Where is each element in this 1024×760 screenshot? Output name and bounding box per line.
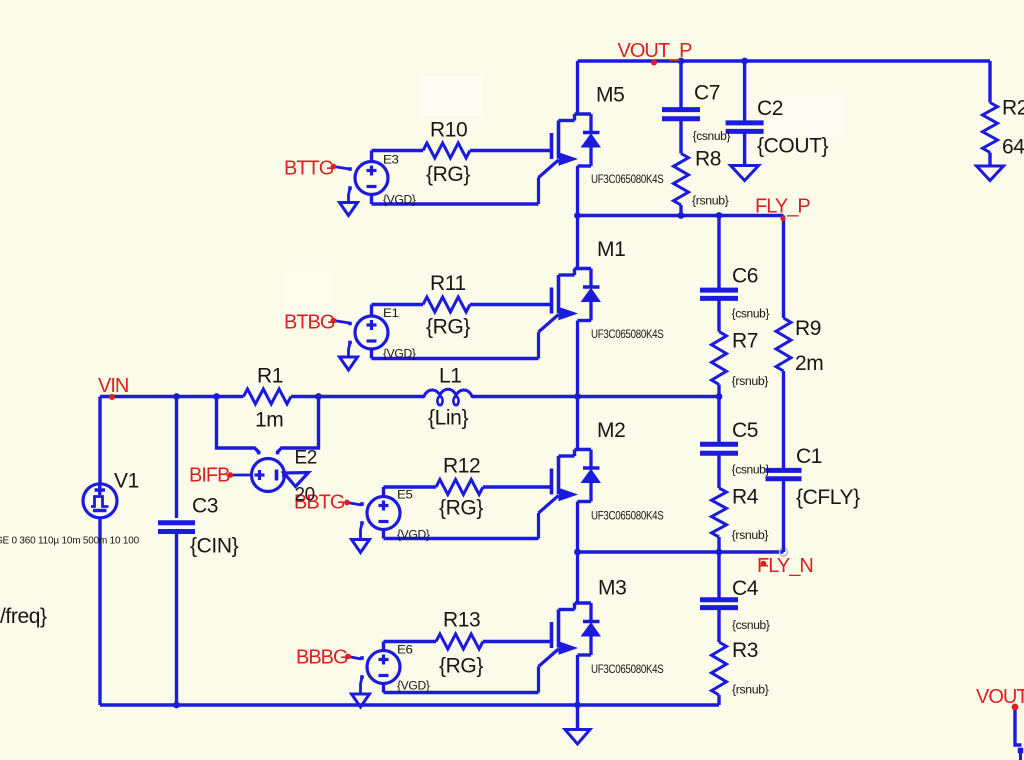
svg-text:C1: C1 — [796, 445, 822, 468]
svg-text:{CFLY}: {CFLY} — [796, 486, 860, 509]
svg-text:{rsnub}: {rsnub} — [732, 685, 769, 697]
svg-text:R8: R8 — [695, 148, 721, 171]
svg-text:R13: R13 — [443, 609, 480, 632]
svg-text:R12: R12 — [443, 455, 480, 478]
svg-text:C3: C3 — [192, 495, 218, 518]
svg-text:{COUT}: {COUT} — [757, 135, 829, 158]
svg-text:E3: E3 — [383, 154, 399, 166]
svg-text:{csnub}: {csnub} — [732, 620, 770, 632]
svg-text:{RG}: {RG} — [439, 655, 483, 678]
svg-text:{csnub}: {csnub} — [732, 309, 770, 321]
svg-text:VIN: VIN — [98, 375, 128, 397]
svg-text:UF3C065080K4S: UF3C065080K4S — [591, 174, 664, 186]
svg-text:BBBG: BBBG — [296, 647, 348, 669]
svg-text:UF3C065080K4S: UF3C065080K4S — [591, 664, 664, 676]
svg-text:R4: R4 — [732, 486, 759, 509]
svg-text:2m: 2m — [795, 352, 823, 375]
svg-text:C7: C7 — [694, 82, 720, 105]
svg-text:V1: V1 — [114, 470, 139, 493]
svg-text:E5: E5 — [397, 490, 413, 502]
svg-text:SE 0 360 110µ 10m 500m 10 100: SE 0 360 110µ 10m 500m 10 100 — [0, 535, 139, 547]
svg-text:20: 20 — [295, 485, 315, 506]
svg-text:C6: C6 — [732, 265, 758, 288]
svg-text:R3: R3 — [732, 639, 758, 662]
svg-text:UF3C065080K4S: UF3C065080K4S — [591, 510, 664, 522]
svg-text:C5: C5 — [732, 419, 758, 442]
svg-text:{csnub}: {csnub} — [732, 465, 770, 477]
svg-text:R1: R1 — [257, 365, 283, 388]
svg-text:VOUT_P: VOUT_P — [618, 40, 693, 62]
svg-text:E6: E6 — [397, 645, 413, 657]
svg-text:{Lin}: {Lin} — [428, 407, 468, 430]
svg-text:BTTG: BTTG — [284, 158, 334, 180]
svg-text:E2: E2 — [295, 448, 317, 469]
svg-text:E1: E1 — [383, 308, 399, 320]
svg-text:BTBG: BTBG — [284, 312, 335, 334]
svg-text:1m: 1m — [255, 409, 283, 432]
svg-text:C4: C4 — [732, 577, 759, 600]
svg-text:{rsnub}: {rsnub} — [692, 196, 729, 208]
svg-text:{VGD}: {VGD} — [383, 349, 416, 361]
svg-text:{CIN}: {CIN} — [190, 535, 239, 558]
svg-text:{RG}: {RG} — [426, 316, 470, 339]
svg-text:/freq}: /freq} — [0, 605, 47, 628]
svg-text:R9: R9 — [795, 317, 821, 340]
svg-text:M2: M2 — [597, 419, 625, 442]
svg-text:{RG}: {RG} — [426, 163, 470, 186]
svg-text:FLY_N: FLY_N — [757, 555, 813, 577]
svg-text:{rsnub}: {rsnub} — [732, 376, 769, 388]
svg-text:{RG}: {RG} — [439, 497, 483, 520]
svg-text:R2: R2 — [1002, 97, 1024, 120]
svg-text:M5: M5 — [596, 84, 624, 107]
svg-text:{VGD}: {VGD} — [383, 195, 416, 207]
svg-text:{VGD}: {VGD} — [397, 681, 430, 693]
svg-text:UF3C065080K4S: UF3C065080K4S — [591, 329, 664, 341]
svg-text:{VGD}: {VGD} — [397, 530, 430, 542]
svg-text:R7: R7 — [732, 330, 758, 353]
svg-text:M1: M1 — [597, 238, 625, 261]
svg-text:R11: R11 — [430, 272, 466, 295]
svg-text:BIFB: BIFB — [189, 465, 230, 487]
svg-text:L1: L1 — [439, 365, 462, 388]
svg-text:FLY_P: FLY_P — [755, 196, 810, 218]
svg-text:M3: M3 — [598, 577, 626, 600]
svg-text:C2: C2 — [757, 97, 783, 120]
svg-text:640m: 640m — [1002, 136, 1024, 159]
svg-text:R10: R10 — [430, 119, 467, 142]
svg-text:{rsnub}: {rsnub} — [732, 530, 769, 542]
svg-text:{csnub}: {csnub} — [693, 131, 731, 143]
